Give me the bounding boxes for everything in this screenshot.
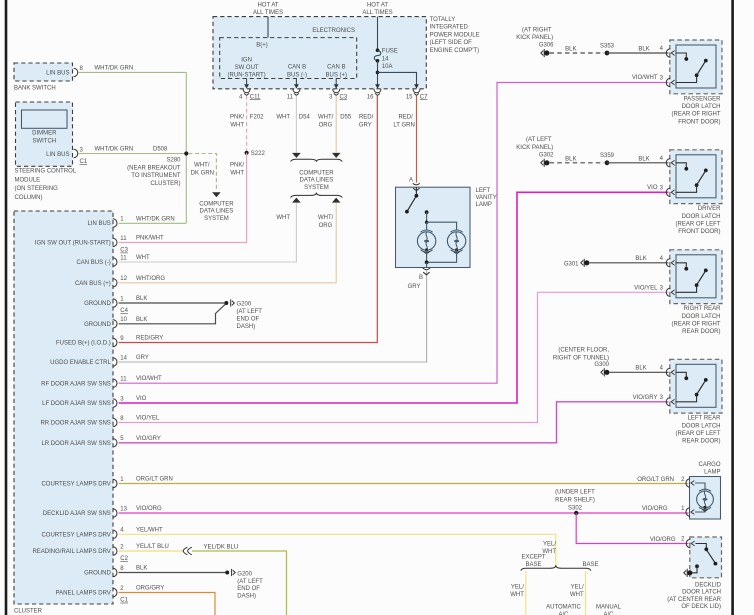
svg-text:ORG: ORG — [319, 122, 333, 128]
svg-text:G200: G200 — [237, 301, 252, 307]
splice S222 — [245, 151, 249, 155]
wire B(+) feed into TIPM — [267, 17, 269, 38]
svg-text:LIN BUS: LIN BUS — [46, 152, 69, 158]
svg-text:SW OUT: SW OUT — [235, 65, 259, 71]
cargo lamp bulb — [695, 483, 705, 490]
svg-text:YEL/: YEL/ — [511, 584, 524, 590]
svg-text:END OF: END OF — [237, 586, 260, 592]
svg-text:LAMP: LAMP — [476, 202, 492, 208]
svg-text:(RUN-START): (RUN-START) — [228, 73, 266, 79]
svg-text:(AT LEFT: (AT LEFT — [237, 579, 263, 585]
svg-text:WHT/DK GRN: WHT/DK GRN — [136, 216, 175, 222]
fuse 14 10A — [376, 48, 380, 52]
passenger door latch pin 3 — [666, 78, 670, 86]
component LEFT VANITY LAMP box — [396, 187, 471, 267]
svg-text:CARGO: CARGO — [698, 462, 720, 468]
svg-text:C3: C3 — [340, 94, 348, 100]
svg-text:BUS (-): BUS (-) — [287, 73, 307, 79]
svg-text:GROUND: GROUND — [84, 571, 111, 577]
cargo lamp pin 2 — [686, 479, 690, 487]
svg-text:CAN B: CAN B — [327, 65, 345, 71]
wire VIO/ORG S302 to decklid latch — [576, 513, 688, 544]
svg-text:BLK: BLK — [136, 317, 147, 323]
svg-text:GROUND: GROUND — [84, 322, 111, 328]
svg-text:11: 11 — [120, 377, 127, 383]
wire PNK/WHT F202 (dashed) from TIPM pin 4 — [246, 96, 248, 151]
wire WHT/DK GRN bank switch LIN BUS — [78, 71, 186, 73]
svg-text:C3: C3 — [120, 248, 128, 254]
svg-text:LT GRN: LT GRN — [393, 122, 414, 128]
svg-text:(REAR OF LEFT: (REAR OF LEFT — [675, 431, 720, 437]
svg-text:AUTOMATIC: AUTOMATIC — [546, 604, 581, 610]
svg-text:END OF: END OF — [237, 316, 260, 322]
svg-text:MODULE: MODULE — [15, 177, 41, 183]
svg-text:WHT/ORG: WHT/ORG — [136, 276, 165, 282]
svg-text:LEFT REAR: LEFT REAR — [688, 416, 722, 422]
svg-text:LIN BUS: LIN BUS — [87, 221, 110, 227]
svg-text:GRY: GRY — [359, 122, 372, 128]
svg-text:WHT/DK GRN: WHT/DK GRN — [95, 146, 134, 152]
svg-text:S280: S280 — [166, 158, 181, 164]
svg-text:S222: S222 — [251, 151, 266, 157]
svg-text:(AT RIGHT: (AT RIGHT — [522, 27, 552, 33]
svg-text:DASH): DASH) — [237, 593, 256, 599]
svg-text:10A: 10A — [382, 64, 393, 70]
vanity switch — [415, 187, 417, 195]
svg-text:ORG/LT GRN: ORG/LT GRN — [136, 477, 173, 483]
ground G200 (upper) — [224, 301, 228, 305]
svg-text:YEL/DK BLU: YEL/DK BLU — [204, 544, 239, 550]
wire YEL/LT BLU reading lamps — [119, 550, 184, 552]
svg-text:COMPUTER: COMPUTER — [299, 170, 334, 176]
svg-text:G200: G200 — [237, 572, 252, 578]
wire BLK S359 to driver latch — [607, 162, 669, 164]
wire YEL/WHT base branch — [585, 571, 587, 615]
svg-text:EXCEPT: EXCEPT — [521, 555, 545, 561]
component driver door latch box — [670, 150, 722, 204]
pin 4 connector C11 — [244, 84, 249, 88]
svg-text:VIO/GRY: VIO/GRY — [136, 436, 161, 442]
svg-text:LF DOOR AJAR SW SNS: LF DOOR AJAR SW SNS — [42, 401, 111, 407]
svg-text:FRONT DOOR): FRONT DOOR) — [678, 119, 720, 125]
svg-text:REAR SHELF): REAR SHELF) — [555, 498, 595, 504]
svg-text:KICK PANEL): KICK PANEL) — [516, 145, 553, 151]
component right rear door latch box — [670, 250, 722, 304]
wire WHT/DK GRN steering LIN BUS — [78, 153, 186, 155]
svg-text:14: 14 — [382, 57, 389, 63]
component DECKLID DOOR LATCH box — [690, 537, 722, 578]
svg-text:SWITCH: SWITCH — [32, 138, 56, 144]
svg-text:BLK: BLK — [565, 156, 576, 162]
svg-text:LIN BUS: LIN BUS — [46, 71, 69, 77]
module CLUSTER box — [14, 211, 113, 604]
svg-text:LR DOOR AJAR SW SNS: LR DOOR AJAR SW SNS — [41, 441, 110, 447]
svg-text:DOOR LATCH: DOOR LATCH — [682, 104, 721, 110]
module TIPM (Totally Integrated Power Module) box — [213, 17, 426, 89]
svg-text:LAMP: LAMP — [704, 470, 720, 476]
wire VIO LF door ajar — [119, 192, 669, 403]
decklid ground — [687, 570, 692, 575]
svg-text:ALL TIMES: ALL TIMES — [253, 10, 283, 16]
svg-text:D54: D54 — [299, 115, 311, 121]
svg-text:DOOR LATCH: DOOR LATCH — [682, 214, 721, 220]
wire ORG/GRY panel lamps to bottom — [119, 593, 215, 615]
driver door latch pin 4 — [666, 159, 670, 167]
svg-text:DOOR LATCH: DOOR LATCH — [682, 314, 721, 320]
svg-text:DECKLID: DECKLID — [695, 582, 722, 588]
svg-text:10: 10 — [120, 317, 127, 323]
svg-text:YEL/: YEL/ — [543, 541, 556, 547]
passenger door latch ajar switch — [675, 53, 686, 59]
svg-text:(NEAR BREAKOUT: (NEAR BREAKOUT — [127, 165, 181, 171]
brace over COMPUTER DATA LINES SYSTEM — [291, 159, 343, 162]
svg-text:COURTESY LAMPS DRV: COURTESY LAMPS DRV — [41, 482, 110, 488]
arrow WHT into data lines — [292, 153, 301, 158]
svg-text:G301: G301 — [564, 261, 579, 267]
svg-text:DATA LINES: DATA LINES — [200, 209, 234, 215]
svg-text:RIGHT OF TUNNEL): RIGHT OF TUNNEL) — [553, 355, 609, 361]
svg-text:INTEGRATED: INTEGRATED — [430, 25, 469, 31]
TIPM inner B(+) box — [220, 38, 357, 79]
svg-text:(REAR OF RIGHT: (REAR OF RIGHT — [672, 112, 721, 118]
svg-text:PANEL LAMPS DRV: PANEL LAMPS DRV — [56, 591, 111, 597]
wire ORG/LT GRN courtesy lamps to cargo lamp — [119, 483, 689, 485]
wire VIO/GRY LR door ajar — [119, 402, 669, 443]
svg-text:13: 13 — [120, 506, 127, 512]
svg-text:BUS (+): BUS (+) — [326, 73, 348, 79]
svg-text:DECKLID AJAR SW SNS: DECKLID AJAR SW SNS — [43, 511, 111, 517]
wire VIO/ORG decklid ajar to cargo lamp pin1 — [119, 512, 689, 514]
svg-text:WHT/DK GRN: WHT/DK GRN — [95, 66, 134, 72]
svg-text:(AT CENTER REAR: (AT CENTER REAR — [667, 597, 721, 603]
wire fuse feed — [377, 17, 379, 50]
svg-text:ORG/LT GRN: ORG/LT GRN — [637, 477, 674, 483]
svg-text:VIO/WHT: VIO/WHT — [632, 75, 658, 81]
svg-text:WHT: WHT — [136, 255, 150, 261]
vanity bulb 1 — [421, 230, 433, 232]
svg-text:VIO/WHT: VIO/WHT — [136, 376, 162, 382]
svg-text:WHT/: WHT/ — [318, 215, 334, 221]
svg-text:BLK: BLK — [565, 47, 576, 53]
svg-text:B: B — [419, 275, 423, 281]
svg-text:CLUSTER: CLUSTER — [14, 609, 43, 615]
svg-text:DOOR LATCH: DOOR LATCH — [682, 590, 721, 596]
svg-text:HOT AT: HOT AT — [257, 3, 278, 9]
svg-text:DK GRN: DK GRN — [191, 170, 214, 176]
svg-text:ALL TIMES: ALL TIMES — [362, 10, 392, 16]
steering module pin 3 connector C1 — [74, 149, 78, 157]
svg-text:PNK/WHT: PNK/WHT — [136, 235, 164, 241]
svg-text:WHT/: WHT/ — [194, 163, 210, 169]
svg-text:G300: G300 — [594, 362, 609, 368]
wire GRY vanity lamp B to cluster UGDO ENABLE CTRL — [119, 271, 427, 363]
svg-text:ELECTRONICS: ELECTRONICS — [312, 28, 355, 34]
svg-text:16: 16 — [367, 94, 374, 100]
in-line connector on reading lamp wire — [183, 547, 187, 555]
svg-text:D55: D55 — [340, 115, 352, 121]
svg-text:VANITY: VANITY — [476, 195, 497, 201]
svg-text:PNK/: PNK/ — [230, 115, 244, 121]
svg-text:G302: G302 — [539, 152, 554, 158]
arrow into computer data lines (left) — [212, 192, 221, 197]
svg-text:DIMMER: DIMMER — [32, 131, 57, 137]
pin 15 connector C7 — [414, 84, 419, 88]
vanity pin B — [423, 268, 430, 270]
svg-text:WHT/: WHT/ — [318, 115, 334, 121]
svg-text:ORG: ORG — [319, 223, 333, 229]
pin 3 connector C3 — [334, 84, 339, 88]
cargo lamp pin 1 — [686, 508, 690, 516]
svg-text:(AT LEFT: (AT LEFT — [237, 309, 263, 315]
wire WHT/ORG D55 from TIPM pin 3 — [335, 96, 337, 153]
svg-text:MANUAL: MANUAL — [596, 604, 622, 610]
svg-text:IGN SW OUT (RUN-START): IGN SW OUT (RUN-START) — [35, 241, 111, 247]
svg-text:WHT: WHT — [570, 592, 584, 598]
svg-text:(REAR OF RIGHT: (REAR OF RIGHT — [672, 322, 721, 328]
wire WHT D54 from TIPM pin 11 — [295, 96, 297, 153]
svg-text:S302: S302 — [568, 506, 583, 512]
svg-text:YEL/: YEL/ — [571, 584, 584, 590]
svg-text:(LEFT SIDE OF: (LEFT SIDE OF — [430, 40, 473, 46]
svg-text:F202: F202 — [250, 115, 264, 121]
svg-text:11: 11 — [120, 255, 127, 261]
wire WHT/DK GRN into cluster LIN BUS — [119, 222, 187, 224]
svg-text:REAR DOOR): REAR DOOR) — [682, 439, 720, 445]
svg-text:A: A — [409, 178, 413, 184]
svg-text:(REAR OF LEFT: (REAR OF LEFT — [675, 222, 720, 228]
svg-text:B(+): B(+) — [256, 43, 268, 49]
svg-text:C7: C7 — [420, 94, 428, 100]
wire BLK dashed G302 to S359 — [550, 162, 604, 164]
svg-text:14: 14 — [120, 355, 127, 361]
pin 11 — [294, 84, 299, 88]
svg-text:GRY: GRY — [136, 355, 149, 361]
wire BLK cluster ground pin10 to G200 — [119, 304, 226, 324]
splice S359 — [605, 160, 610, 165]
brace under COMPUTER DATA LINES SYSTEM — [291, 193, 343, 198]
wire YEL/WHT except-base branch — [525, 571, 527, 615]
svg-text:VIO/YEL: VIO/YEL — [136, 416, 160, 422]
svg-text:VIO/YEL: VIO/YEL — [634, 285, 658, 291]
wire RED/GRY from TIPM pin 16 to cluster FUSED B(+) — [119, 96, 378, 343]
vanity bulb output joins — [426, 250, 428, 262]
svg-text:LEFT: LEFT — [476, 188, 491, 194]
right rear door latch ajar switch — [675, 263, 686, 269]
svg-text:VIO/GRY: VIO/GRY — [633, 395, 658, 401]
wire WHT to cluster CAN BUS (-) — [119, 203, 297, 262]
svg-text:UGDO ENABLE CTRL: UGDO ENABLE CTRL — [50, 360, 111, 366]
svg-text:C11: C11 — [250, 94, 261, 100]
svg-text:DOOR LATCH: DOOR LATCH — [682, 423, 721, 429]
svg-text:(AT LEFT: (AT LEFT — [526, 137, 552, 143]
vanity lamp feed node — [425, 210, 429, 214]
svg-text:COLUMN): COLUMN) — [15, 195, 43, 201]
page left border — [5, 0, 8, 615]
svg-text:C1: C1 — [120, 598, 128, 604]
wire WHT/DK GRN dashed branch to computer data lines — [188, 154, 216, 192]
bank switch pin 8 — [74, 68, 78, 76]
svg-text:(UNDER LEFT: (UNDER LEFT — [555, 490, 595, 496]
svg-text:(CENTER FLOOR,: (CENTER FLOOR, — [558, 348, 609, 354]
svg-text:11: 11 — [287, 94, 294, 100]
TIPM pin stubs — [246, 79, 248, 85]
arrow WHT/ORG into data lines — [332, 153, 341, 158]
svg-text:RIGHT REAR: RIGHT REAR — [684, 306, 722, 312]
svg-text:PNK/: PNK/ — [230, 163, 244, 169]
svg-text:YEL/LT BLU: YEL/LT BLU — [136, 544, 169, 550]
wire YEL/WHT courtesy lamps drv — [119, 534, 556, 565]
wire BLK dashed G306 to S353 — [550, 52, 604, 54]
wire BLK cluster ground pin8 to G200 — [119, 572, 226, 574]
module STEERING CONTROL MODULE box — [16, 102, 73, 166]
svg-text:CAN BUS (+): CAN BUS (+) — [75, 281, 111, 287]
svg-text:READING/RAIL LAMPS DRV: READING/RAIL LAMPS DRV — [32, 549, 110, 555]
svg-text:(ON STEERING: (ON STEERING — [15, 186, 59, 192]
decklid switch — [695, 544, 706, 549]
svg-text:POWER MODULE: POWER MODULE — [430, 32, 480, 38]
svg-text:BLK: BLK — [136, 296, 147, 302]
wire BLK cluster ground pin1 to G200 — [119, 302, 225, 304]
svg-text:VIO: VIO — [136, 396, 147, 402]
svg-text:FUSE: FUSE — [382, 49, 398, 55]
svg-text:KICK PANEL): KICK PANEL) — [516, 35, 553, 41]
pin 16 — [375, 84, 380, 88]
svg-text:WHT: WHT — [230, 122, 244, 128]
svg-text:D508: D508 — [153, 146, 168, 152]
svg-text:COURTESY LAMPS DRV: COURTESY LAMPS DRV — [41, 533, 110, 539]
svg-text:CAN B: CAN B — [288, 65, 306, 71]
driver door latch ajar switch — [675, 163, 686, 169]
wire WHT/ORG to cluster CAN BUS (+) — [119, 203, 337, 283]
svg-text:HOT AT: HOT AT — [367, 3, 388, 9]
svg-text:WHT: WHT — [276, 115, 290, 121]
module BANK SWITCH box — [14, 63, 73, 81]
svg-text:SYSTEM: SYSTEM — [304, 185, 329, 191]
svg-text:WHT: WHT — [510, 592, 524, 598]
component left rear door latch box — [670, 359, 722, 413]
svg-text:TO INSTRUMENT: TO INSTRUMENT — [131, 173, 181, 179]
svg-text:CAN BUS (-): CAN BUS (-) — [76, 260, 110, 266]
left rear door latch ajar switch — [675, 372, 686, 378]
svg-text:BLK: BLK — [136, 566, 147, 572]
svg-text:RED/: RED/ — [398, 115, 413, 121]
svg-text:DRIVER: DRIVER — [698, 206, 721, 212]
svg-text:BASE: BASE — [582, 562, 598, 568]
svg-text:SYSTEM: SYSTEM — [204, 216, 229, 222]
svg-text:GROUND: GROUND — [84, 301, 111, 307]
svg-text:PASSENGER: PASSENGER — [684, 96, 722, 102]
right rear door latch pin 4 — [666, 259, 670, 267]
svg-text:BLK: BLK — [635, 256, 646, 262]
svg-text:OF DECK LID): OF DECK LID) — [681, 604, 721, 610]
wire YEL/DK BLU to bottom — [192, 551, 287, 615]
svg-text:RR DOOR AJAR SW SNS: RR DOOR AJAR SW SNS — [40, 421, 110, 427]
wire fuse output + branch node — [377, 61, 379, 88]
left rear door latch pin 4 — [666, 368, 670, 376]
svg-text:11: 11 — [120, 236, 127, 242]
arrow WHT out of data lines — [292, 198, 301, 203]
svg-text:DATA LINES: DATA LINES — [300, 178, 334, 184]
svg-text:TOTALLY: TOTALLY — [430, 17, 456, 23]
wire VIO/WHT RF door ajar — [119, 83, 669, 384]
splice S353 — [605, 51, 610, 56]
svg-text:15: 15 — [406, 94, 413, 100]
wire BLK G300 to left rear latch — [610, 371, 669, 373]
arrow WHT/ORG out of data lines — [332, 198, 341, 203]
page right border — [731, 0, 734, 615]
ground G200 (lower) — [225, 571, 229, 575]
svg-text:C1: C1 — [80, 159, 88, 165]
svg-text:C2: C2 — [120, 556, 128, 562]
svg-text:ORG/GRY: ORG/GRY — [136, 586, 164, 592]
wire BLK G301 to right rear latch — [590, 262, 669, 264]
decklid pin 2 — [686, 539, 690, 547]
svg-text:FUSED B(+) (I.O.D.): FUSED B(+) (I.O.D.) — [56, 341, 111, 347]
wire PNK/WHT to cluster IGN SW OUT — [119, 153, 247, 243]
wire RED/LT GRN from TIPM pin 15 to vanity lamp — [416, 96, 418, 183]
svg-text:YEL/WHT: YEL/WHT — [136, 527, 163, 533]
svg-text:VIO/ORG: VIO/ORG — [650, 537, 676, 543]
svg-text:VIO: VIO — [647, 185, 658, 191]
svg-text:WHT: WHT — [230, 170, 244, 176]
svg-text:ENGINE COMP'T): ENGINE COMP'T) — [430, 48, 479, 54]
wire BLK S353 to passenger latch — [607, 52, 669, 54]
wire VIO/YEL RR door ajar — [119, 292, 669, 422]
svg-text:COMPUTER: COMPUTER — [199, 201, 234, 207]
brace YEL/WHT split — [521, 565, 591, 571]
svg-text:STEERING CONTROL: STEERING CONTROL — [15, 169, 77, 175]
svg-text:BLK: BLK — [638, 156, 649, 162]
right rear door latch pin 3 — [666, 288, 670, 296]
svg-text:12: 12 — [120, 276, 127, 282]
left rear door latch pin 3 — [666, 398, 670, 406]
svg-text:BASE: BASE — [525, 562, 541, 568]
svg-text:RF DOOR AJAR SW SNS: RF DOOR AJAR SW SNS — [41, 381, 111, 387]
svg-text:BLK: BLK — [638, 47, 649, 53]
svg-text:G306: G306 — [539, 43, 554, 49]
svg-text:REAR DOOR): REAR DOOR) — [682, 329, 720, 335]
svg-text:CLUSTER): CLUSTER) — [150, 181, 180, 187]
svg-text:GRY: GRY — [408, 284, 421, 290]
dimmer switch box — [22, 110, 68, 128]
svg-text:BLK: BLK — [635, 366, 646, 372]
svg-text:WHT: WHT — [276, 215, 290, 221]
svg-text:RED/GRY: RED/GRY — [136, 336, 163, 342]
svg-text:IGN: IGN — [241, 58, 252, 64]
vanity bulb 2 — [451, 230, 463, 232]
splice S280 — [184, 151, 188, 155]
svg-text:VIO/ORG: VIO/ORG — [642, 506, 668, 512]
svg-text:BANK SWITCH: BANK SWITCH — [14, 86, 56, 92]
splice S302 — [574, 511, 578, 515]
component passenger door latch box — [670, 40, 722, 94]
svg-text:DASH): DASH) — [237, 324, 256, 330]
svg-text:S359: S359 — [600, 153, 615, 159]
svg-text:FRONT DOOR): FRONT DOOR) — [678, 229, 720, 235]
svg-text:C4: C4 — [120, 308, 128, 314]
driver door latch pin 3 — [666, 188, 670, 196]
svg-text:VIO/ORG: VIO/ORG — [136, 506, 162, 512]
svg-text:S353: S353 — [600, 43, 615, 49]
passenger door latch pin 4 — [666, 49, 670, 57]
svg-text:RED/: RED/ — [359, 115, 374, 121]
